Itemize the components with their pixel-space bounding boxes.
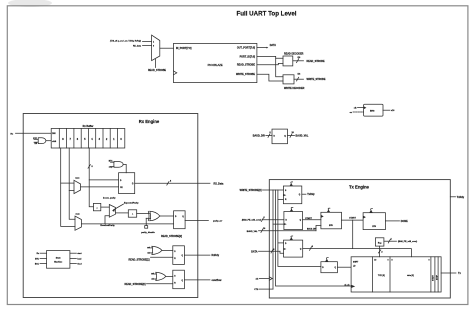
svg-text:Machine: Machine <box>54 262 63 264</box>
wire <box>143 41 152 43</box>
svg-text:PICOBLAZE: PICOBLAZE <box>208 63 223 67</box>
svg-text:Reg: Reg <box>378 242 381 244</box>
state machine U10 <box>47 251 70 269</box>
svg-text:RX_data: RX_data <box>133 44 142 47</box>
wire mux M3 out <box>116 212 129 214</box>
svg-text:CTS: CTS <box>254 289 259 291</box>
svg-text:{BA8_PE_vd8_over}: {BA8_PE_vd8_over} <box>398 240 417 243</box>
rxrdy reg U8 <box>173 246 185 265</box>
svg-text:READ_STROBE[1]: READ_STROBE[1] <box>129 259 150 262</box>
BTU2 U14 <box>363 213 385 230</box>
wire clk into BRG <box>358 107 364 109</box>
wire PORT_ID <box>257 56 283 58</box>
svg-text:ReceivedParity: ReceivedParity <box>100 224 115 227</box>
svg-text:{TX8_off, p_err, f_err, TxRdy,: {TX8_off, p_err, f_err, TxRdy, RxRdy} <box>110 39 141 42</box>
svg-text:READ_STROBE: READ_STROBE <box>148 69 166 72</box>
svg-text:parity_err: parity_err <box>213 220 222 223</box>
svg-text:1: 1 <box>153 42 154 44</box>
vertical bus wires <box>273 190 284 224</box>
wire START <box>303 219 321 221</box>
wire BAUD_VAL out <box>288 135 295 137</box>
svg-text:parity_disable: parity_disable <box>141 231 155 234</box>
svg-text:0: 0 <box>429 260 430 262</box>
svg-text:data [8]: data [8] <box>407 274 414 277</box>
parity disable stub <box>145 218 147 225</box>
svg-text:Incom. parity: Incom. parity <box>103 197 116 200</box>
clock wedge picoblaze <box>174 71 177 75</box>
parity accumulator B1 <box>93 203 100 210</box>
buffer tap wire x=60.7 <box>61 148 75 226</box>
XOR gate G3 <box>150 211 160 220</box>
mux M1 <box>152 35 160 61</box>
wire config reg down <box>379 246 381 257</box>
svg-text:8: 8 <box>392 260 393 262</box>
svg-text:TxRdy: TxRdy <box>457 196 465 199</box>
wire read decoder out <box>293 60 304 62</box>
svg-text:RX_Data: RX_Data <box>214 182 225 185</box>
svg-text:WRITE_STROBE[3]: WRITE_STROBE[3] <box>240 189 262 192</box>
svg-text:{BA8_PE_vd8_over}: {BA8_PE_vd8_over} <box>242 219 261 222</box>
write decoder U3 <box>283 75 294 84</box>
BRG box U4 <box>364 104 383 116</box>
svg-text:0: 0 <box>388 260 389 262</box>
Rx Engine box <box>23 114 198 298</box>
svg-text:IN_PORT[7:0]: IN_PORT[7:0] <box>176 47 192 50</box>
wire bus to DFF <box>89 179 118 181</box>
svg-text:Go-0: Go-0 <box>77 264 81 266</box>
svg-text:READ_STROBE[2]: READ_STROBE[2] <box>161 235 182 238</box>
wire <box>143 45 152 47</box>
DFF U6 (rx data reg) <box>119 173 135 194</box>
svg-text:overflow: overflow <box>212 279 222 282</box>
buffer tap wire x=69.2 <box>69 148 75 219</box>
parity xor B2 <box>128 210 136 217</box>
svg-text:set: set <box>151 272 154 275</box>
svg-text:shift: shift <box>52 140 56 143</box>
mux M1 select wire <box>155 59 157 67</box>
txrdy flop U11 <box>283 186 301 204</box>
svg-text:ExpectedParity: ExpectedParity <box>124 201 139 204</box>
svg-text:READ DECODER: READ DECODER <box>284 53 304 56</box>
wire mux to picoblaze IN_PORT <box>160 47 174 49</box>
svg-text:WRITE_STROBE: WRITE_STROBE <box>307 78 326 81</box>
wire data bus to shifter <box>303 249 412 257</box>
svg-text:READ_STROBE[0]: READ_STROBE[0] <box>125 283 146 286</box>
config reg U16 <box>375 238 384 246</box>
wire config reg out <box>384 240 397 242</box>
svg-text:START: START <box>305 217 312 220</box>
wire XOR out <box>160 215 174 217</box>
svg-text:BAUD_VAL: BAUD_VAL <box>247 230 259 233</box>
svg-text:set: set <box>147 246 150 249</box>
svg-text:Rx Buffer: Rx Buffer <box>83 125 94 128</box>
svg-text:x1_sh: x1_sh <box>344 285 349 287</box>
svg-text:DONE: DONE <box>401 220 408 223</box>
svg-text:TXD [8]: TXD [8] <box>378 275 385 277</box>
svg-text:RxRdy: RxRdy <box>212 254 220 257</box>
svg-text:10: 10 <box>374 260 376 262</box>
svg-text:DATA: DATA <box>270 44 277 47</box>
svg-text:TxRdy: TxRdy <box>307 193 315 196</box>
svg-text:start: start <box>77 252 81 255</box>
svg-text:BAUD_DIV: BAUD_DIV <box>307 227 317 230</box>
mux M3 <box>109 205 115 218</box>
config flop U12 <box>284 212 303 230</box>
wire start branch down <box>352 220 354 249</box>
wire DONE <box>385 220 399 222</box>
wire overflow out <box>184 279 210 281</box>
buffer tap wire x=89.2 (data bus) <box>89 148 93 207</box>
svg-text:READ_STROBE: READ_STROBE <box>237 64 255 67</box>
Tx Engine box <box>269 180 450 298</box>
wire Tx out <box>441 272 456 274</box>
svg-text:Full UART Top Level: Full UART Top Level <box>236 11 296 18</box>
wire OUT_PORT to DATA <box>257 47 267 49</box>
svg-text:0: 0 <box>153 46 154 48</box>
wire rst into BRG <box>353 111 364 113</box>
wire TxRdy <box>302 193 306 195</box>
overflow reg U9 <box>173 270 185 289</box>
parity status reg U7 <box>174 211 186 229</box>
wire RX_Data out <box>135 182 210 184</box>
picoblaze U1 <box>174 43 257 82</box>
svg-text:WRITE_STROBE: WRITE_STROBE <box>236 73 255 76</box>
svg-text:BAUD_VAL: BAUD_VAL <box>296 135 309 138</box>
svg-text:WRITE DECODER: WRITE DECODER <box>284 87 305 90</box>
svg-text:BTC: BTC <box>35 258 40 260</box>
clock wedge shifter <box>351 285 355 288</box>
wire RxRdy out <box>184 254 210 256</box>
wire PORT_ID branch to write decoder <box>276 58 283 76</box>
data flop U15 <box>284 240 303 257</box>
wire write decoder out <box>294 78 304 80</box>
wire READ_STROBE <box>257 63 283 64</box>
svg-text:READ_STROBE: READ_STROBE <box>307 60 325 63</box>
bit counter U17 <box>321 262 338 273</box>
svg-text:START: START <box>432 274 435 281</box>
tx shift register U18 <box>351 257 441 292</box>
svg-text:BAUD_DIV: BAUD_DIV <box>253 135 266 138</box>
wire WRITE_STROBE <box>257 74 283 81</box>
svg-text:Tx Engine: Tx Engine <box>349 185 370 190</box>
wire BRG out <box>383 109 390 111</box>
svg-text:DATA: DATA <box>251 250 258 253</box>
svg-text:PORT_ID[7:0]: PORT_ID[7:0] <box>240 55 256 58</box>
svg-text:Rx Engine: Rx Engine <box>139 119 160 124</box>
wire BTU1 out <box>342 219 364 221</box>
wire ReceivedParity <box>81 223 173 225</box>
wire TxRdy border out <box>450 196 455 198</box>
svg-text:STOP: STOP <box>436 274 438 280</box>
svg-text:SHIFT: SHIFT <box>353 261 359 263</box>
svg-text:START: START <box>349 217 356 220</box>
wire counter out <box>337 266 351 268</box>
svg-text:OUT_PORT[7:0]: OUT_PORT[7:0] <box>237 47 255 50</box>
clock wedge BRG <box>364 106 367 109</box>
svg-text:BRG: BRG <box>370 110 375 112</box>
svg-text:BCC: BCC <box>35 264 40 266</box>
BTU1 U13 <box>321 212 342 229</box>
